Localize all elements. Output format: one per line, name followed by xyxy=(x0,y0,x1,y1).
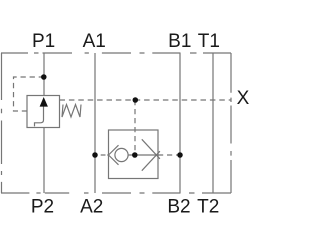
wire T line (T1 to T2) xyxy=(212,53,214,193)
pilot wire X line (dashed, relief valve vent to port X) xyxy=(60,99,232,101)
svg-text:A2: A2 xyxy=(80,196,103,217)
pilot wire relief valve remote sense (dashed from P junction) xyxy=(14,77,45,111)
junction node on P line xyxy=(41,74,47,80)
wire P line lower (relief valve to P2) xyxy=(43,128,45,194)
pilot wire A to check valve (dashed) xyxy=(101,154,109,156)
svg-text:P2: P2 xyxy=(31,196,54,217)
junction node on B line xyxy=(177,152,183,158)
check valve CV1 ball xyxy=(115,148,128,161)
junction node on X pilot line xyxy=(133,97,139,103)
svg-text:B2: B2 xyxy=(167,196,190,217)
relief valve RV1 body xyxy=(27,96,60,128)
enclosure boundary top xyxy=(1,52,231,54)
svg-text:T1: T1 xyxy=(198,31,220,52)
svg-text:B1: B1 xyxy=(168,31,191,52)
relief valve RV1 arrow (filled triangle up) xyxy=(40,97,48,107)
svg-text:T2: T2 xyxy=(197,196,219,217)
wire B line (B1 to B2) xyxy=(179,53,181,193)
wire A line (A1 to A2) xyxy=(94,53,96,193)
svg-text:A1: A1 xyxy=(83,31,106,52)
check valve CV1 body xyxy=(109,130,159,179)
pilot wire check valve to B (dashed) xyxy=(158,154,180,156)
wire P line upper (P1 to relief valve) xyxy=(43,53,45,96)
relief valve RV1 spring xyxy=(62,105,81,118)
svg-text:X: X xyxy=(237,88,250,109)
enclosure boundary right xyxy=(230,53,232,193)
enclosure boundary left xyxy=(1,53,3,193)
check valve CV1 seat xyxy=(109,145,119,165)
svg-text:P1: P1 xyxy=(32,31,55,52)
relief valve RV1 internal flow path xyxy=(35,107,44,127)
pilot wire X line to check valve junction (dashed vertical) xyxy=(134,100,136,151)
check valve CV1 internal line ball to junction to arrow xyxy=(128,154,158,156)
check valve CV1 arrow to B xyxy=(142,139,160,170)
junction node on A line xyxy=(92,152,98,158)
junction node inside check valve xyxy=(132,152,138,158)
enclosure boundary bottom xyxy=(1,192,231,194)
